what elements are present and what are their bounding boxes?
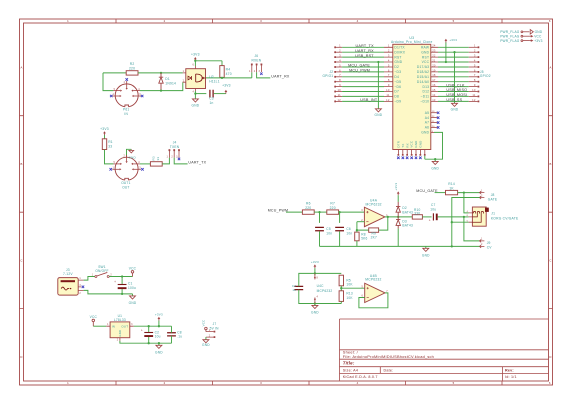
power flag PWR_FLAG to GND — [500, 30, 543, 35]
no-connect U3 A4 — [437, 116, 440, 119]
svg-text:17: 17 — [432, 78, 436, 82]
wire MCU_PWM to R6 — [286, 211, 302, 213]
svg-text:1u: 1u — [292, 288, 296, 292]
svg-text:A7: A7 — [425, 121, 429, 125]
svg-text:+: + — [114, 280, 116, 284]
svg-text:RST: RST — [394, 55, 401, 59]
wire GATE to J7 top pin — [464, 193, 469, 213]
svg-text:USB_MISO: USB_MISO — [446, 88, 467, 92]
svg-text:A: A — [20, 66, 22, 70]
svg-text:~D10: ~D10 — [420, 100, 429, 104]
svg-text:10: 10 — [337, 88, 341, 92]
border row letters — [20, 66, 551, 360]
GND label below U3 left — [375, 113, 383, 117]
svg-text:8: 8 — [388, 78, 390, 82]
connector J4 TXEN — [167, 141, 180, 159]
wire U3 to J5 pin7 — [438, 76, 469, 78]
wire to C3 — [195, 93, 206, 95]
svg-text:GND: GND — [419, 141, 423, 148]
svg-text:14: 14 — [432, 93, 436, 97]
svg-text:470: 470 — [226, 72, 232, 76]
ground at power input — [130, 296, 136, 299]
svg-text:2: 2 — [164, 381, 166, 385]
svg-text:USB_SS: USB_SS — [446, 98, 462, 102]
+3V3 power symbol — [225, 90, 228, 94]
svg-text:GND: GND — [375, 113, 383, 117]
svg-text:9: 9 — [388, 83, 390, 87]
svg-text:MCU_GATE: MCU_GATE — [348, 64, 370, 68]
svg-text:Size: A4: Size: A4 — [343, 368, 358, 372]
GND label below U2 — [192, 104, 200, 108]
svg-text:10K: 10K — [346, 283, 353, 287]
wire +3V3 to D2 — [397, 195, 399, 202]
wire U4A output to R10 — [385, 216, 412, 218]
wire C6 bottom stem — [339, 231, 341, 246]
svg-text:7: 7 — [474, 73, 476, 77]
junction GATE node — [463, 191, 465, 193]
junction divider — [340, 287, 342, 289]
junction U3 bottom GND — [434, 158, 436, 160]
svg-text:File: ArduinoProMiniMIDIUSBhos: File: ArduinoProMiniMIDIUSBhostCV.kicad_… — [343, 354, 434, 359]
junction R8 top — [356, 229, 358, 231]
junction U2 pin4 node — [194, 92, 196, 94]
+3V3 above D2 — [394, 183, 398, 191]
resistor R9 — [369, 228, 379, 240]
svg-text:Id: 1/1: Id: 1/1 — [505, 375, 517, 379]
connector J6 RXEN — [249, 54, 262, 73]
switch SW1 ON/OFF — [92, 265, 113, 277]
ground on analog rail — [423, 248, 429, 251]
svg-text:U2: U2 — [209, 75, 214, 79]
ground at regulator — [156, 345, 162, 348]
junction U2 pin6 / +3V3 — [194, 60, 196, 62]
wire CV to J9 pin1 — [464, 217, 480, 241]
label UART_RX — [271, 75, 290, 79]
ground below U2 — [192, 99, 198, 102]
wire GND to J7 bottom pin — [452, 221, 469, 223]
junction C6 top — [338, 211, 340, 213]
svg-text:Rev:: Rev: — [505, 368, 514, 372]
svg-text:8: 8 — [474, 78, 476, 82]
label UART_TX — [356, 44, 375, 48]
+3V3 power symbol — [314, 264, 317, 268]
wire +3V3 to U4C rail — [314, 268, 316, 273]
wire C5 bottom stem — [319, 231, 321, 246]
svg-text:MCP6232: MCP6232 — [365, 278, 381, 282]
resistor R6 — [302, 202, 314, 215]
resistor R14 — [446, 182, 458, 195]
wire U3 to J5 pin5 — [438, 66, 469, 68]
svg-text:TX: TX — [401, 143, 405, 147]
svg-text:4: 4 — [357, 19, 359, 23]
wire U3 to J5 pin8 — [438, 81, 469, 83]
svg-text:220: 220 — [129, 66, 135, 70]
capacitor C4 — [292, 284, 303, 292]
wire C8 top stem — [171, 326, 173, 333]
svg-text:GND: GND — [192, 104, 200, 108]
wire SW1 to VCC — [109, 276, 132, 278]
svg-text:33: 33 — [156, 157, 160, 161]
+3V3 at C3 — [222, 83, 231, 87]
svg-text:UART_TX: UART_TX — [356, 44, 375, 48]
svg-text:~D6: ~D6 — [394, 85, 401, 89]
svg-text:A: A — [549, 66, 551, 70]
svg-text:3: 3 — [339, 54, 341, 58]
svg-text:6: 6 — [388, 68, 390, 72]
junction C2 bottom — [148, 342, 150, 344]
svg-text:4: 4 — [388, 58, 390, 62]
wire U3 GND pin to bottom rail — [425, 132, 443, 159]
wire C8 bottom stem — [171, 336, 173, 343]
resistor R4 — [220, 66, 232, 78]
svg-text:Date:: Date: — [384, 368, 394, 372]
svg-text:BAT43: BAT43 — [402, 210, 413, 214]
svg-text:UART_RX: UART_RX — [355, 49, 374, 53]
GND label at power input — [129, 301, 137, 305]
svg-text:VCC: VCC — [534, 34, 542, 38]
connector J8 pin 2 — [480, 196, 485, 199]
svg-text:C8: C8 — [177, 330, 182, 334]
wire R8 bottom stem — [356, 241, 358, 247]
label USB_MISO — [446, 88, 467, 92]
junction D1 bottom — [160, 89, 162, 91]
wire U2 output to J6 pin1 — [206, 77, 252, 79]
polarized capacitor C7 — [429, 203, 438, 222]
resistor R13 — [339, 291, 353, 302]
svg-text:6: 6 — [474, 68, 476, 72]
svg-text:D7: D7 — [394, 90, 399, 94]
svg-text:Title:: Title: — [343, 361, 355, 366]
wire U2 pin4 to GND — [194, 94, 196, 99]
wire analog GND rail — [320, 245, 480, 247]
no-connect U3 A6 — [437, 126, 440, 129]
wire U3 to J5 pin9 — [438, 86, 469, 88]
wire J2 pin8 to U3 — [342, 81, 384, 83]
wire C7 to CV node — [438, 216, 464, 218]
no-connect U3 bottom pin 2 — [402, 157, 405, 160]
svg-text:J9: J9 — [487, 241, 491, 245]
svg-text:D: D — [20, 355, 22, 359]
junction U3 VCC — [445, 61, 447, 63]
power flag PWR_FLAG to VCC — [500, 34, 542, 38]
connector J2 GPIO1 — [322, 44, 342, 103]
ground below U3 left — [375, 109, 381, 112]
wire R1 to DIN OUT — [105, 150, 114, 164]
svg-text:10n: 10n — [326, 231, 332, 235]
svg-text:5V IN: 5V IN — [210, 326, 220, 330]
no-connect U3 bottom pin 5 — [415, 157, 417, 160]
svg-text:5: 5 — [474, 63, 476, 67]
svg-text:GND: GND — [129, 155, 137, 159]
svg-text:+3V3: +3V3 — [191, 52, 200, 56]
svg-text:12: 12 — [337, 98, 341, 102]
svg-text:R1: R1 — [108, 140, 113, 144]
svg-text:1: 1 — [67, 19, 69, 23]
wire R14 to J8 pin1 — [458, 192, 480, 194]
wire CV to J7 mid pin — [464, 216, 469, 218]
label J8 GATE — [488, 193, 498, 202]
VCC label at J7 rotated — [201, 320, 205, 327]
svg-text:D0/RX: D0/RX — [394, 50, 405, 54]
svg-text:C1: C1 — [128, 281, 133, 285]
junction C2 top — [148, 325, 150, 327]
svg-text:C2: C2 — [155, 330, 160, 334]
wire R6 to R7 — [314, 211, 327, 213]
resistor R7 — [327, 202, 339, 215]
+3V3 above U3 VCC — [449, 38, 457, 42]
svg-text:D: D — [549, 355, 551, 359]
svg-text:+3V3: +3V3 — [311, 260, 319, 264]
svg-text:GND: GND — [421, 131, 429, 135]
svg-text:.1u: .1u — [177, 335, 182, 339]
connector J9 pin 2 — [480, 245, 485, 248]
label OUT1 OUT — [121, 181, 130, 189]
junction D1 top — [160, 72, 162, 74]
wire J4 pin2 to label — [174, 158, 187, 164]
no-connect U3 bottom pin 1 — [397, 157, 400, 160]
VCC power symbol at C1 — [131, 271, 134, 277]
connector J5 GPIO2 — [469, 44, 491, 103]
wire J2 pin6 to U3 — [342, 71, 384, 73]
svg-text:12: 12 — [472, 98, 476, 102]
wire J2 pin7 to U3 — [342, 76, 384, 78]
polarized capacitor C2 — [141, 328, 161, 338]
wire C5 top stem — [319, 212, 321, 223]
+3V3 above U4C — [311, 260, 319, 264]
+3V3 power symbol — [103, 131, 106, 135]
svg-text:11: 11 — [338, 93, 342, 97]
svg-text:2: 2 — [474, 49, 476, 53]
label USB_INT — [360, 98, 378, 102]
connector J3 barrel jack 7-12V — [58, 268, 84, 295]
junction U3 pin4 GND — [377, 61, 379, 63]
svg-text:GND: GND — [422, 253, 430, 257]
svg-text:6: 6 — [549, 19, 551, 23]
label UART_RX — [355, 49, 374, 53]
svg-text:6: 6 — [549, 381, 551, 385]
svg-text:GATE: GATE — [488, 198, 498, 202]
svg-text:3: 3 — [474, 54, 476, 58]
svg-text:220: 220 — [330, 206, 336, 210]
no-connect U3 bottom pin 3 — [406, 157, 409, 160]
wire U3 bottom GND pin down — [424, 156, 426, 160]
wire divider — [340, 286, 342, 291]
wire riser to J6 pin1 — [251, 72, 253, 78]
wire R4 top stub — [221, 61, 223, 66]
wire U1 GND rail — [120, 341, 172, 343]
ground stem at power input — [132, 294, 134, 296]
svg-text:D4: D4 — [394, 75, 399, 79]
svg-text:IN: IN — [124, 112, 128, 116]
svg-text:PWR_FLAG: PWR_FLAG — [500, 39, 520, 43]
wire J2 pin5 to U3 — [342, 66, 384, 68]
wire C1 top stem — [121, 277, 123, 285]
junction U3 pin23 GND — [453, 51, 455, 53]
label USB_CLK — [446, 83, 465, 87]
VCC label at U1 input — [90, 315, 98, 319]
label MCU_GATE — [416, 189, 438, 193]
svg-text:22: 22 — [432, 54, 436, 58]
svg-text:KORG CV/GATE: KORG CV/GATE — [491, 217, 519, 221]
title block — [340, 319, 549, 381]
svg-text:+3V3: +3V3 — [394, 183, 398, 191]
junction C1 bottom — [121, 293, 123, 295]
svg-text:B: B — [20, 162, 22, 166]
svg-text:10u: 10u — [155, 335, 161, 339]
svg-text:1: 1 — [474, 44, 476, 48]
svg-text:IN: IN — [112, 325, 115, 329]
wire J2 pin3 to U3 — [342, 56, 384, 58]
wire +3V3 to R1 — [104, 135, 106, 139]
no-connect OUT1 lower-left pin — [110, 168, 113, 171]
no-connect U3 A5 — [437, 112, 440, 115]
wire U3 to J5 pin6 — [438, 71, 469, 73]
svg-text:330: 330 — [414, 212, 420, 216]
svg-text:D15/A1: D15/A1 — [417, 75, 429, 79]
+3V3 at regulator output — [155, 312, 163, 316]
wire R8 top stem — [356, 230, 358, 232]
junction C5 top — [318, 211, 320, 213]
wire U3 to J5 pin10 — [438, 91, 469, 93]
junction D2 D3 node — [397, 216, 399, 218]
capacitor C8 — [167, 330, 182, 338]
wire C3 to +3V3 — [214, 93, 226, 95]
diode D3 BAT43 — [396, 217, 413, 229]
label MCU_PWM — [268, 209, 289, 213]
no-connect J3 pin3 — [82, 286, 85, 289]
wire U2 pin6 to +3V3 node — [194, 61, 196, 66]
GND label below U3 bottom — [431, 166, 439, 170]
wire D3 to GND rail — [397, 229, 399, 247]
resistor R10 — [412, 208, 422, 219]
ground stem below U4C — [314, 304, 316, 306]
junction CV node — [463, 216, 465, 218]
svg-text:C: C — [20, 259, 22, 263]
wire R9 to U4A output — [379, 217, 388, 230]
wire J7 pin2 to ground — [205, 337, 207, 340]
svg-text:1: 1 — [67, 381, 69, 385]
+3V3 power symbol — [194, 57, 197, 61]
svg-text:GND: GND — [129, 301, 137, 305]
wire C2 top stem — [148, 326, 150, 332]
wire R13 bottom stem — [340, 301, 342, 303]
svg-text:KiCad E.D.A. 8.0.7: KiCad E.D.A. 8.0.7 — [343, 375, 378, 379]
ground stem at regulator — [158, 343, 160, 345]
svg-text:D2: D2 — [394, 65, 399, 69]
regulator U1 L78L33 — [106, 314, 134, 342]
svg-text:4: 4 — [474, 58, 476, 62]
junction feedback on output — [387, 216, 389, 218]
wire U3 to J5 pin4 — [438, 61, 469, 63]
wire J6 pin2 to label — [257, 72, 271, 78]
svg-text:33: 33 — [108, 145, 112, 149]
ground stem below U3 bottom — [434, 159, 436, 161]
svg-text:3: 3 — [260, 381, 262, 385]
capacitor C5 — [315, 227, 332, 235]
svg-text:+: + — [429, 219, 431, 223]
svg-text:3: 3 — [388, 54, 390, 58]
wire C1 bottom stem — [121, 289, 123, 294]
svg-text:USB_CLK: USB_CLK — [446, 83, 465, 87]
svg-text:~D9: ~D9 — [394, 100, 401, 104]
svg-text:12: 12 — [386, 98, 390, 102]
svg-text:10: 10 — [472, 88, 476, 92]
svg-text:~D5: ~D5 — [394, 80, 401, 84]
GND label on analog rail — [422, 253, 430, 257]
svg-text:GND: GND — [155, 351, 163, 355]
junction GND rail at J8 branch — [451, 245, 453, 247]
wire DIN OUT to R3 — [140, 163, 151, 165]
wire U3 GND pin23 down — [454, 52, 456, 103]
svg-text:10u: 10u — [430, 207, 436, 211]
svg-text:GND: GND — [394, 60, 402, 64]
resistor R5 — [339, 275, 353, 287]
no-connect P61 top pin — [126, 78, 129, 81]
svg-text:OUT: OUT — [122, 185, 129, 189]
ground below U3 bottom — [432, 161, 438, 164]
svg-text:GND: GND — [311, 311, 319, 315]
wire U3 to J5 pin11 — [438, 95, 469, 97]
svg-text:Arduino_Pro_Mini_Clone: Arduino_Pro_Mini_Clone — [391, 40, 433, 44]
svg-text:+3V3: +3V3 — [449, 38, 457, 42]
svg-text:R6: R6 — [306, 202, 311, 206]
capacitor C6 — [335, 227, 352, 235]
wire feedback to R9 — [357, 222, 369, 230]
no-connect J4 pin3 — [178, 158, 180, 161]
svg-text:5: 5 — [453, 19, 455, 23]
svg-text:OUT: OUT — [121, 325, 128, 329]
junction U4C V+ — [314, 272, 316, 274]
svg-text:GND: GND — [431, 166, 439, 170]
+3V3 power symbol — [158, 317, 161, 321]
wire R4 bottom stub — [221, 76, 223, 79]
svg-text:~D11: ~D11 — [421, 95, 430, 99]
wire divider to U4B + — [341, 287, 364, 289]
wire J2 pin12 to U3 — [342, 100, 384, 102]
wire J2 pin4 to U3 — [342, 61, 384, 63]
resistor R2 — [126, 62, 138, 75]
no-connect U3 bottom pin 4 — [410, 157, 413, 160]
svg-text:VCC: VCC — [410, 141, 414, 148]
svg-text:R7: R7 — [330, 202, 335, 206]
wire R3 to J4 pin1 — [162, 158, 169, 164]
junction R4 bottom — [221, 77, 223, 79]
junction U4C V- — [314, 302, 316, 304]
connector J9 pin 1 — [480, 240, 485, 243]
svg-text:21: 21 — [432, 58, 436, 62]
svg-text:1: 1 — [339, 44, 341, 48]
wire J2 pin9 to U3 — [342, 86, 384, 88]
+3V3 power symbol — [445, 39, 448, 43]
svg-text:D13: D13 — [422, 85, 429, 89]
junction +3V3 stem — [158, 325, 160, 327]
wire U2 pin4 down — [194, 91, 196, 94]
svg-text:CV: CV — [487, 246, 493, 250]
svg-text:J1: J1 — [491, 212, 495, 216]
svg-text:USB_INT: USB_INT — [360, 98, 378, 102]
wire C4 bottom to rail — [299, 290, 342, 304]
svg-text:VCC: VCC — [422, 60, 430, 64]
svg-text:RST: RST — [422, 55, 429, 59]
svg-text:~D3: ~D3 — [394, 70, 401, 74]
label USB_RST — [355, 54, 374, 58]
wire U3 to J5 pin1 — [438, 46, 469, 48]
svg-text:1K: 1K — [449, 187, 454, 191]
svg-text:19: 19 — [432, 68, 436, 72]
VCC label at C1 — [129, 266, 137, 270]
junction GND stem — [158, 342, 160, 344]
no-connect OUT1 lower-right pin — [141, 168, 144, 171]
